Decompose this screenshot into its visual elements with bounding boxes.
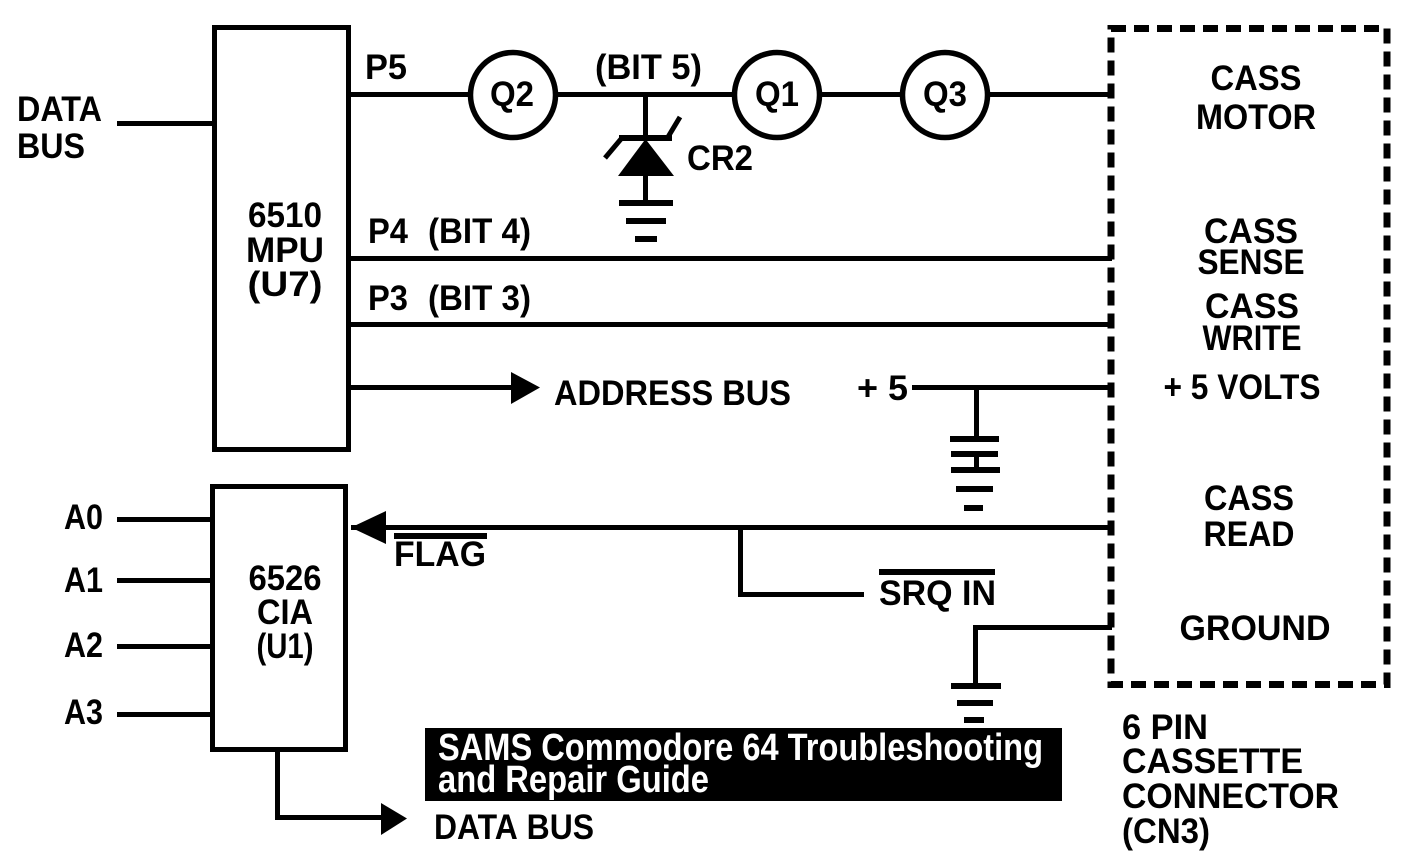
- svg-text:DATA BUS: DATA BUS: [434, 808, 594, 847]
- capacitor C (filter on +5): [950, 436, 999, 457]
- svg-text:A0: A0: [64, 498, 103, 537]
- svg-text:(U7): (U7): [248, 265, 323, 304]
- ground symbol (cassette ground): [951, 683, 1001, 723]
- wire capacitor to ground: [974, 456, 979, 469]
- svg-text:+ 5: + 5: [857, 369, 908, 408]
- svg-text:CONNECTOR: CONNECTOR: [1122, 777, 1339, 816]
- svg-text:SRQ IN: SRQ IN: [879, 574, 996, 613]
- wire DATA BUS to U7: [117, 121, 215, 126]
- watermark banner SAMS: [425, 728, 1062, 801]
- transistor Q2: [471, 53, 556, 138]
- label connector: 6 PIN CASSETTE CONNECTOR (CN3): [1122, 708, 1339, 851]
- wire ADDRESS BUS from U7: [348, 385, 513, 390]
- svg-text:CR2: CR2: [687, 139, 753, 178]
- pin label CASS MOTOR: [1196, 59, 1316, 137]
- svg-text:Q1: Q1: [755, 75, 799, 114]
- wire P5 from U7 to Q2: [348, 92, 470, 97]
- svg-text:Q2: Q2: [490, 75, 534, 114]
- svg-text:+ 5 VOLTS: + 5 VOLTS: [1164, 368, 1321, 407]
- arrowhead DATA BUS (bottom): [381, 803, 407, 835]
- ground symbol below capacitor: [951, 467, 1000, 511]
- svg-text:DATA: DATA: [17, 90, 102, 129]
- wire Q2 to Q1: [556, 92, 736, 97]
- wire CR2 stem from BIT5 node: [643, 95, 648, 138]
- transistor Q1: [735, 53, 820, 138]
- svg-text:CASS: CASS: [1204, 479, 1294, 518]
- svg-text:WRITE: WRITE: [1203, 319, 1302, 358]
- svg-text:(BIT 3): (BIT 3): [428, 279, 531, 318]
- wire GROUND pin: [976, 625, 1112, 630]
- svg-text:6510: 6510: [248, 196, 322, 235]
- svg-text:GROUND: GROUND: [1180, 609, 1331, 648]
- svg-text:A1: A1: [64, 561, 103, 600]
- wire A2: [117, 644, 212, 649]
- svg-text:CASSETTE: CASSETTE: [1122, 742, 1303, 781]
- net label FLAG (with overline): [394, 533, 487, 539]
- pin label CASS WRITE: [1203, 287, 1302, 358]
- IC U7 6510 MPU box: [215, 28, 349, 450]
- wire Q3 to cassette connector CASS MOTOR: [988, 92, 1112, 97]
- label U7: 6510 MPU (U7): [246, 196, 324, 304]
- wire SRQ IN branch vertical: [738, 527, 743, 597]
- wire capacitor stem: [974, 388, 979, 438]
- svg-text:P3: P3: [368, 279, 408, 318]
- connector CN3 dashed box: [1111, 29, 1387, 685]
- arrowhead ADDRESS BUS: [511, 372, 540, 404]
- pin label CASS SENSE: [1198, 212, 1305, 282]
- IC U1 6526 CIA box: [213, 487, 346, 750]
- arrowhead FLAG into U1: [351, 511, 386, 544]
- wire SRQ IN branch horizontal: [738, 592, 864, 597]
- transistor Q3: [903, 53, 988, 138]
- svg-text:Q3: Q3: [923, 75, 967, 114]
- svg-text:A3: A3: [64, 693, 103, 732]
- svg-text:READ: READ: [1204, 515, 1295, 554]
- ground symbol below CR2: [619, 200, 673, 242]
- svg-text:(BIT 4): (BIT 4): [428, 212, 531, 251]
- wire +5 to cassette connector: [912, 385, 1112, 390]
- wire CASS READ / FLAG line: [351, 525, 1112, 530]
- label U1: 6526 CIA (U1): [249, 559, 322, 666]
- svg-text:(U1): (U1): [257, 627, 314, 666]
- svg-text:P4: P4: [368, 212, 408, 251]
- wire Q1 to Q3: [820, 92, 904, 97]
- svg-text:(CN3): (CN3): [1122, 812, 1210, 851]
- svg-text:ADDRESS BUS: ADDRESS BUS: [554, 374, 791, 413]
- svg-text:(BIT 5): (BIT 5): [595, 48, 702, 87]
- svg-text:FLAG: FLAG: [394, 535, 486, 574]
- wire P4 to CASS SENSE: [348, 256, 1112, 261]
- wire CR2 to ground: [643, 176, 648, 203]
- pin label CASS READ: [1204, 479, 1295, 554]
- svg-text:A2: A2: [64, 626, 103, 665]
- node label DATA BUS (left): [17, 90, 102, 166]
- svg-text:SENSE: SENSE: [1198, 243, 1305, 282]
- wire U1 data bus down: [275, 751, 280, 819]
- svg-text:MOTOR: MOTOR: [1196, 98, 1316, 137]
- wire A0: [117, 517, 212, 522]
- svg-text:and Repair Guide: and Repair Guide: [438, 759, 709, 801]
- svg-text:BUS: BUS: [17, 127, 85, 166]
- wire ground stem: [973, 625, 978, 684]
- svg-text:CASS: CASS: [1211, 59, 1302, 98]
- wire A3: [117, 712, 212, 717]
- zener diode CR2: [605, 117, 680, 176]
- net label SRQ IN (with overline): [879, 569, 995, 575]
- svg-text:P5: P5: [365, 48, 407, 87]
- wire A1: [117, 578, 212, 583]
- wire P3 to CASS WRITE: [348, 322, 1112, 327]
